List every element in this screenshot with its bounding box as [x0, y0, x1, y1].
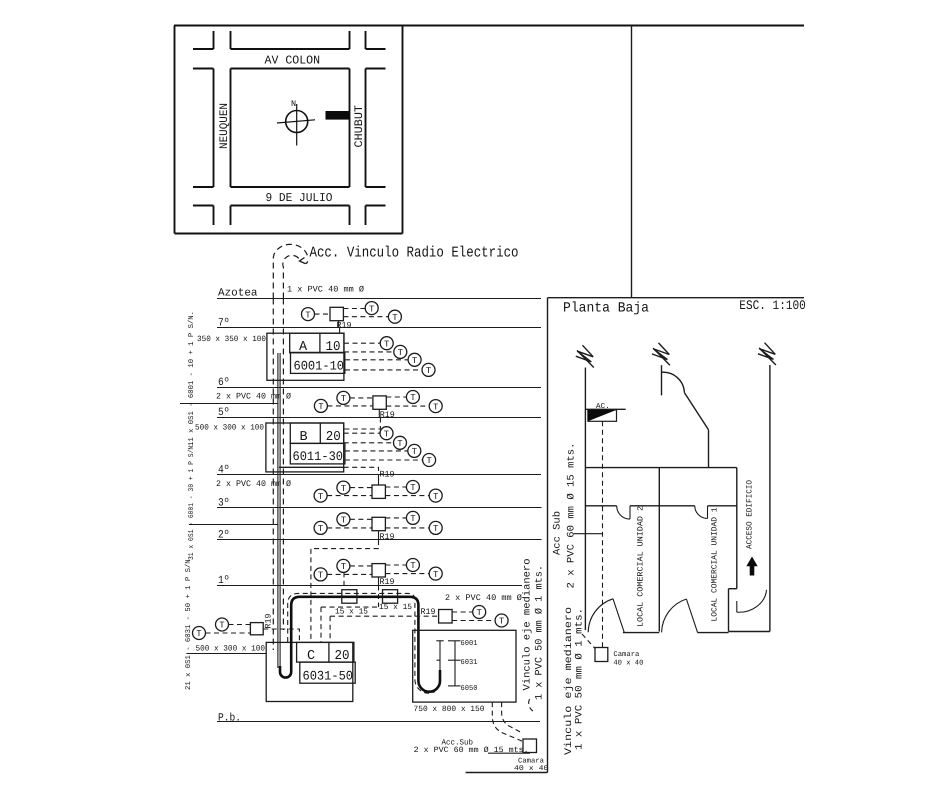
svg-text:LOCAL COMERCIAL UNIDAD 1: LOCAL COMERCIAL UNIDAD 1 — [711, 507, 720, 621]
terminal T2 cabinet B — [394, 436, 407, 449]
label 1 x PVC 40 mm O — [287, 285, 364, 295]
junction box 15x15 first — [335, 590, 368, 617]
corridor door swing — [737, 590, 767, 612]
hook arrowhead — [300, 258, 308, 264]
terminal T lower left (4th-3rd) — [314, 489, 327, 502]
pit box 750x800x150 — [413, 630, 516, 714]
dashed hook conduit to radio link (outer) — [273, 244, 307, 298]
svg-text:Acc. Vinculo Radio Electrico: Acc. Vinculo Radio Electrico — [310, 245, 519, 262]
leader line middle note — [189, 524, 278, 526]
wires dashed bottom-left terminals to R19 box — [206, 625, 251, 634]
terminal T2 cabinet A — [394, 345, 407, 358]
svg-text:CHUBUT: CHUBUT — [353, 105, 366, 148]
svg-text:Vinculo eje medianero: Vinculo eje medianero — [563, 607, 575, 755]
street CHUBUT vertical pair — [350, 31, 366, 225]
break symbol (lightning) left — [576, 345, 594, 367]
dashed 5th line to cabinet B top — [344, 418, 381, 430]
junction box 15x15 second — [379, 590, 412, 613]
floor line Azotea — [217, 288, 541, 300]
svg-text:R19: R19 — [337, 321, 352, 331]
scale label ESC. 1:100 — [739, 298, 806, 313]
svg-text:T: T — [318, 402, 324, 412]
terminal T right 1 — [473, 606, 486, 619]
terminal T1 cabinet A — [380, 337, 393, 350]
terminal T upper right (7th) — [365, 302, 378, 315]
building bottom wall segments — [623, 632, 770, 633]
wire dashed T to box R19 (7th) — [315, 313, 331, 315]
svg-text:2 x PVC 60 mm Ø 15 mts.: 2 x PVC 60 mm Ø 15 mts. — [567, 443, 578, 589]
svg-text:R19: R19 — [421, 607, 436, 617]
svg-text:R19: R19 — [380, 410, 395, 420]
leader tick Acc Sub — [574, 533, 603, 535]
svg-text:15 x 15: 15 x 15 — [379, 603, 412, 612]
size label 500x300x100 — [195, 424, 264, 433]
label Camara 40 x 40 — [514, 757, 549, 773]
svg-text:T: T — [341, 516, 347, 526]
label LOCAL COMERCIAL UNIDAD 2 (rotated) — [637, 506, 646, 627]
terminal T lower left (2nd-1st) — [314, 568, 327, 581]
cabinet C header box C | 20 — [297, 642, 354, 663]
svg-text:40 x 40: 40 x 40 — [613, 660, 643, 668]
terminal T lower left (5th) — [314, 399, 327, 412]
street NEUQUEN vertical pair — [214, 31, 231, 225]
svg-text:T: T — [412, 447, 418, 457]
terminal T pair bottom-left — [193, 627, 206, 640]
tick on conduit at 6031 level — [437, 659, 441, 661]
terminal T upper right (4th-3rd) — [406, 481, 419, 494]
panel border bottom partial — [466, 772, 548, 774]
building middle wall — [658, 468, 660, 632]
terminal T upper right (2nd-1st) — [406, 559, 419, 572]
svg-text:T: T — [341, 394, 347, 404]
street AV COLON horizontal pair — [193, 49, 386, 69]
svg-text:NEUQUEN: NEUQUEN — [218, 103, 231, 149]
svg-text:1 x PVC 40 mm Ø: 1 x PVC 40 mm Ø — [287, 285, 364, 295]
label 9 DE JULIO — [266, 191, 333, 205]
rotated note lower — [184, 555, 193, 690]
svg-text:T: T — [433, 402, 439, 412]
svg-text:T: T — [398, 348, 404, 358]
svg-text:T: T — [426, 366, 432, 376]
dashed diagonal to plan chamber — [582, 634, 595, 649]
svg-text:15 x 15: 15 x 15 — [335, 608, 368, 617]
svg-text:T: T — [410, 514, 416, 524]
svg-text:T: T — [318, 492, 324, 502]
sheet top border line — [174, 25, 804, 27]
wires dashed box to right terminals (3rd-2nd) — [385, 518, 429, 528]
svg-text:500 x 300 x 100: 500 x 300 x 100 — [196, 645, 266, 654]
rotated note Vinculo eje medianero (plan side) — [563, 607, 575, 755]
floor line 7 — [217, 318, 541, 330]
property line right — [769, 365, 771, 632]
connector 7th line to cabinet A — [339, 328, 341, 333]
label NEUQUEN (rotated) — [218, 103, 231, 149]
panel border top — [548, 297, 805, 299]
svg-text:6001: 6001 — [461, 639, 478, 648]
svg-text:9 DE JULIO: 9 DE JULIO — [266, 191, 333, 205]
terminal T3 cabinet B — [408, 444, 421, 457]
floor line 4 — [217, 465, 541, 477]
dashed conduits pit to street chamber — [492, 702, 523, 741]
wires dashed to box (5th) — [327, 398, 373, 406]
junction box R19 (2nd-1st) — [372, 564, 395, 587]
svg-text:Camara: Camara — [613, 651, 640, 659]
thick conduit cabinet C to street pit — [280, 597, 440, 692]
floor line 3 — [217, 498, 542, 510]
svg-text:T: T — [341, 484, 347, 494]
terminal T upper right (5th) — [406, 391, 419, 404]
size label 350x350x100 — [197, 335, 266, 344]
svg-text:750 x 800 x 150: 750 x 800 x 150 — [414, 705, 485, 714]
rotated note upper (riser cable count) — [187, 311, 196, 446]
terminal T4 cabinet B — [423, 454, 436, 467]
door swing arc opening 1 — [617, 506, 630, 519]
svg-text:R19: R19 — [380, 577, 395, 587]
svg-text:31 x 0S1 - 6001 - 30 + 1 P S/N: 31 x 0S1 - 6001 - 30 + 1 P S/N. — [187, 442, 196, 560]
cabinet A header box A | 10 — [290, 333, 344, 355]
cabinet A inner box 6001-10 — [291, 352, 345, 373]
rotated note Vinculo eje medianero (riser side) — [522, 559, 534, 691]
building second wall with door openings — [585, 505, 736, 507]
entrance door swing middle — [662, 599, 698, 633]
label 2 x PVC 40 mm O (4th-3rd) — [216, 479, 291, 489]
dashed link cabinet C to right R19 — [321, 607, 439, 642]
conduit end tick in pit — [436, 641, 443, 670]
svg-text:T: T — [318, 524, 324, 534]
svg-text:ACCESO EDIFICIO: ACCESO EDIFICIO — [746, 480, 755, 549]
compass north symbol — [277, 99, 315, 146]
row 2nd-1st: terminal T upper left — [337, 559, 350, 572]
floor line 6 — [217, 377, 541, 389]
svg-text:T: T — [476, 608, 482, 618]
panel border left — [547, 298, 549, 773]
terminal T3 cabinet A — [408, 353, 421, 366]
label 2 x PVC 40 mm O (6th-5th) — [216, 392, 291, 402]
terminal T lower left (3rd-2nd) — [314, 521, 327, 534]
street chamber square — [523, 739, 537, 753]
svg-text:T: T — [384, 339, 390, 349]
svg-text:T: T — [410, 483, 416, 493]
rotated note Acc Sub (plan side) — [552, 511, 564, 555]
svg-text:T: T — [410, 393, 416, 403]
pit depth scale ladder — [448, 639, 478, 693]
wire dashed box to T lower right (7th) — [343, 316, 388, 318]
svg-text:21 x 0S1 - 6031 - 50 + 1 P S/N: 21 x 0S1 - 6031 - 50 + 1 P S/N. — [184, 555, 193, 690]
wires dashed box to right terminals (4th-3rd) — [385, 487, 429, 496]
leader line upper note — [180, 403, 279, 405]
dashed hook conduit (inner) — [283, 255, 301, 298]
svg-text:1 x PVC 50 mm Ø 1 mts.: 1 x PVC 50 mm Ø 1 mts. — [575, 608, 586, 750]
rotated note 1 x PVC 50 mm O 1 mts. (plan side) — [575, 608, 586, 750]
svg-text:Acc Sub: Acc Sub — [552, 511, 564, 555]
building left wall lower — [584, 468, 586, 630]
svg-text:N: N — [291, 99, 296, 109]
svg-text:R19: R19 — [380, 532, 395, 542]
terminal T lower right (5th) — [429, 400, 442, 413]
terminal T lower right (2nd-1st) — [429, 567, 442, 580]
floor line P.b. — [217, 713, 540, 725]
svg-text:T: T — [397, 439, 403, 449]
junction box R19 (4th-3rd) with label above — [372, 470, 395, 499]
junction box R19 (3rd-2nd) — [372, 517, 395, 542]
wires dashed to box (2nd-1st) — [327, 566, 372, 575]
wire dashed box to T upper right (7th) — [343, 308, 365, 310]
svg-text:T: T — [426, 456, 432, 466]
riser dashed conduit left — [272, 299, 274, 651]
dashed drop left T to 15x15 box1 — [343, 572, 345, 589]
rotated note 2 x PVC 60 mm O 15 mts. (plan side) — [567, 443, 578, 589]
svg-text:T: T — [305, 310, 311, 320]
leader line lower note — [186, 653, 266, 655]
svg-text:ESC. 1:100: ESC. 1:100 — [739, 298, 806, 313]
terminal T upper right (3rd-2nd) — [406, 511, 419, 524]
title Planta Baja — [563, 301, 649, 317]
svg-text:AV COLON: AV COLON — [265, 54, 321, 68]
break symbol (lightning) right — [758, 343, 776, 365]
label LOCAL COMERCIAL UNIDAD 1 (rotated) — [711, 507, 720, 621]
floor line 1 — [217, 575, 522, 587]
svg-text:6011-30: 6011-30 — [293, 449, 344, 464]
svg-text:T: T — [499, 617, 505, 627]
terminal T lower right (4th-3rd) — [429, 489, 442, 502]
svg-text:6031-50: 6031-50 — [303, 669, 354, 684]
svg-text:R19: R19 — [380, 470, 395, 480]
junction box R19 (7th) — [330, 307, 352, 330]
label AV COLON — [265, 54, 321, 68]
entrance door swing left — [588, 599, 624, 633]
dashed parallel conduit — [288, 593, 435, 693]
wires dashed right R19 to terminals — [452, 612, 495, 621]
junction box R19 right — [421, 607, 453, 623]
entry line middle with curve — [662, 365, 709, 467]
svg-text:T: T — [219, 621, 225, 631]
svg-text:500 x 300 x 100: 500 x 300 x 100 — [195, 424, 264, 433]
street 9 DE JULIO horizontal pair — [193, 187, 386, 206]
cabinet A outer body — [267, 333, 344, 380]
row 4th-3rd: terminal T upper left — [337, 481, 350, 494]
svg-text:Azotea: Azotea — [218, 288, 258, 300]
svg-text:P.b.: P.b. — [218, 713, 241, 725]
label 2 x PVC 40 mm O feeder — [445, 593, 522, 603]
svg-text:1 x PVC 50 mm Ø 1 mts.: 1 x PVC 50 mm Ø 1 mts. — [535, 565, 546, 700]
label ACCESO EDIFICIO (rotated) — [746, 480, 755, 549]
svg-text:6031: 6031 — [461, 658, 478, 667]
svg-text:R19: R19 — [264, 614, 274, 629]
building location marker (filled) — [326, 111, 350, 120]
rotated note middle — [187, 442, 196, 560]
wires dashed cabinet B to terminals — [344, 433, 423, 460]
junction box R19 (5th) — [373, 396, 395, 420]
cabinet B header box B | 20 — [290, 423, 343, 445]
wires dashed cabinet A to terminals — [344, 343, 422, 370]
cabinet C outer body — [266, 642, 353, 701]
terminal T right 2 — [495, 614, 508, 627]
svg-text:T: T — [433, 492, 439, 502]
wires dashed box to right terminals (5th) — [386, 397, 429, 406]
dashed drop from 3rd-2nd box down-left to cabinet C — [311, 540, 379, 642]
cabinet B inner box 6011-30 — [279, 443, 345, 467]
svg-text:6001-10: 6001-10 — [294, 359, 345, 374]
break symbol (lightning) middle — [652, 343, 670, 365]
riser dashed conduit right — [282, 299, 284, 631]
svg-text:2 x PVC 40 mm Ø: 2 x PVC 40 mm Ø — [445, 593, 522, 603]
svg-text:T: T — [318, 571, 324, 581]
building top wall — [585, 467, 736, 469]
svg-text:T: T — [410, 561, 416, 571]
plan chamber square 40x40 — [595, 648, 643, 668]
cabinet C inner box 6031-50 — [300, 662, 355, 683]
svg-text:Vinculo eje medianero: Vinculo eje medianero — [522, 559, 534, 691]
wire dashed R19 to riser — [263, 629, 299, 642]
cabinet B outer body — [266, 423, 344, 472]
label CHUBUT (rotated) — [353, 105, 366, 148]
riser solid conduit pair — [278, 353, 280, 668]
svg-text:LOCAL COMERCIAL UNIDAD 2: LOCAL COMERCIAL UNIDAD 2 — [637, 506, 646, 627]
wires dashed box to right terminals (2nd-1st) — [385, 565, 429, 574]
svg-text:Planta Baja: Planta Baja — [563, 301, 649, 317]
svg-text:T: T — [196, 629, 202, 639]
dashed hook at medianera — [529, 698, 533, 711]
svg-text:T: T — [433, 524, 439, 534]
wires dashed to box (3rd-2nd) — [327, 519, 372, 528]
row 7th floor: terminal T left — [302, 308, 315, 321]
dashed drop from 2nd-1st box to 15x15 box — [378, 586, 380, 608]
terminal T lower right (3rd-2nd) — [429, 521, 442, 534]
title Acc. Vinculo Radio Electrico — [310, 245, 519, 262]
terminal T lower right (7th) — [388, 310, 401, 323]
wires dashed to box (4th-3rd) — [327, 488, 372, 496]
corridor notch walls — [729, 589, 737, 632]
svg-text:T: T — [392, 313, 398, 323]
sheet vertical divider — [631, 26, 633, 298]
svg-text:T: T — [341, 562, 347, 572]
AC antenna flag — [585, 402, 625, 421]
dashed drop from AC to chamber — [602, 421, 604, 647]
door swing arc opening 2 — [695, 506, 708, 519]
label 2 x PVC 60 mm O 15 mts. — [414, 746, 530, 755]
access arrow (filled, up) — [746, 557, 757, 576]
junction box R19 bottom-left — [250, 614, 273, 635]
floor line 2 — [217, 530, 542, 542]
row 5th floor: terminal T upper left — [337, 391, 350, 404]
size label 500x300x100 — [196, 645, 266, 654]
svg-text:T: T — [384, 429, 390, 439]
dashed cabinet B bottom to 4th-3rd box — [344, 467, 379, 471]
svg-text:T: T — [433, 570, 439, 580]
floor line 5 — [217, 407, 541, 419]
rotated note 1 x PVC 50 mm O 1 mts. (riser side) — [535, 565, 546, 700]
svg-text:6050: 6050 — [461, 684, 478, 693]
label Acc.Sub — [442, 738, 474, 747]
medianera line left (wall above building) — [584, 368, 586, 468]
svg-text:T: T — [412, 356, 418, 366]
svg-text:350 x 350 x 100: 350 x 350 x 100 — [197, 335, 266, 344]
row 3rd-2nd: terminal T upper left — [337, 513, 350, 526]
map frame — [175, 26, 403, 234]
svg-text:T: T — [369, 304, 375, 314]
terminal T4 cabinet A — [422, 363, 435, 376]
terminal T1 cabinet B — [380, 427, 393, 440]
building inner wall right corridor — [736, 468, 738, 589]
